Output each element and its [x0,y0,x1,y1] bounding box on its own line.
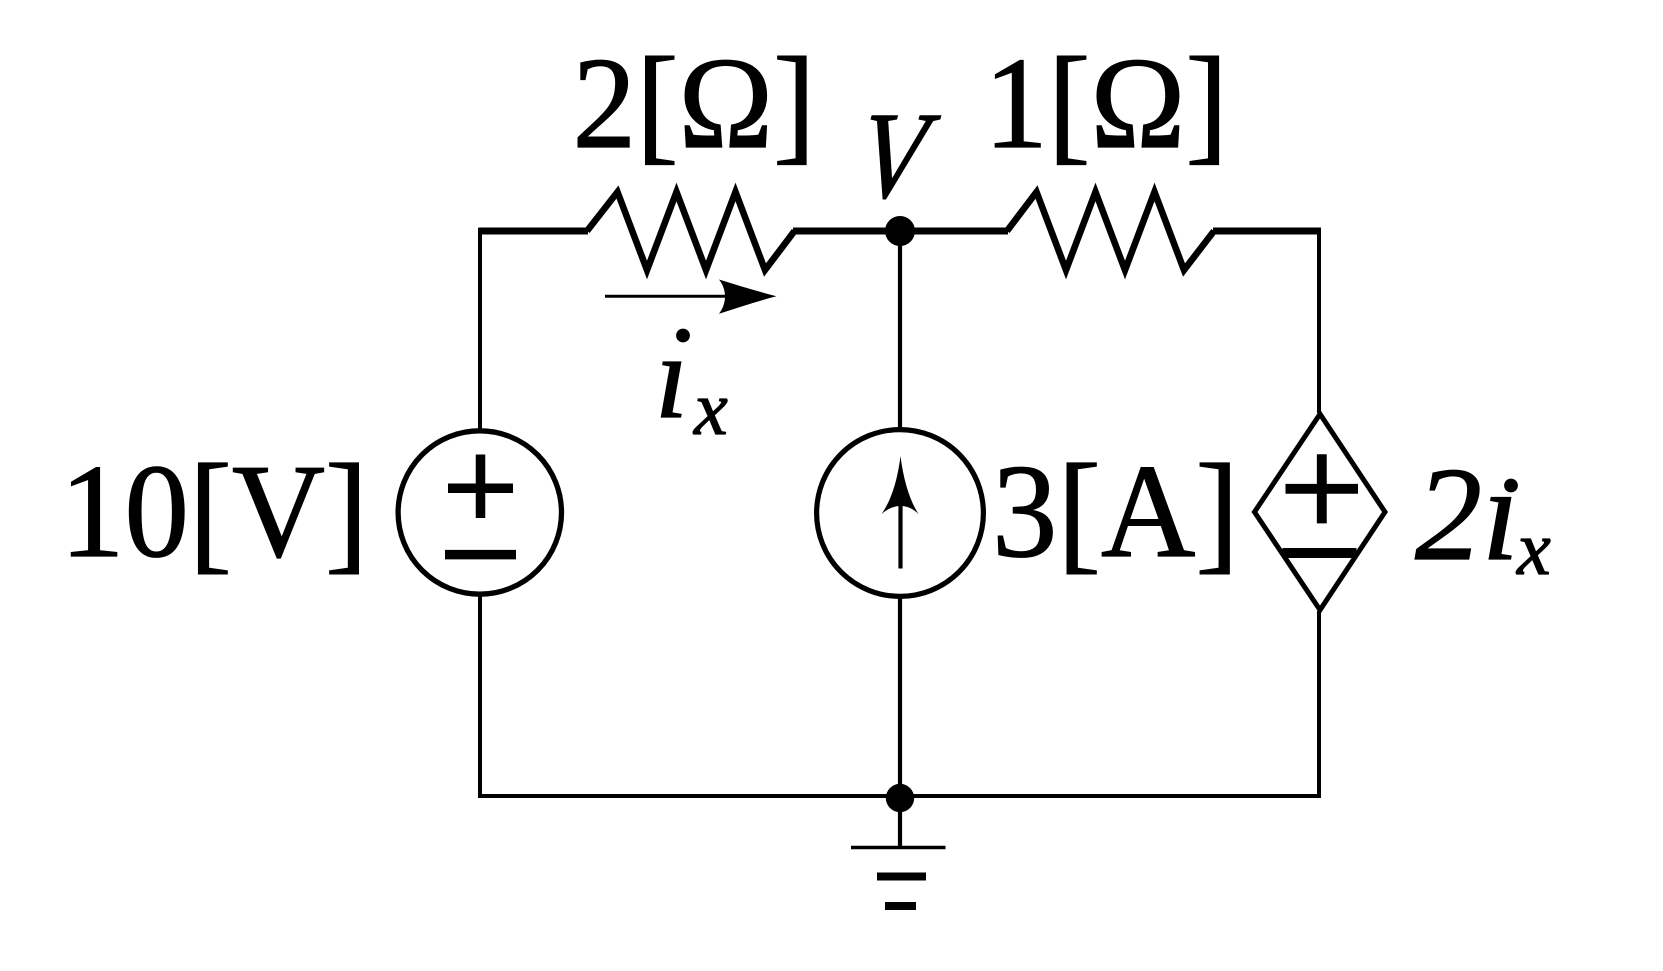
current source I1 arrowhead [882,456,919,514]
voltage source V1 plus sign [448,455,513,519]
svg-text:x: x [693,367,728,451]
ground stem [898,797,902,847]
bottom junction node dot [886,784,914,812]
svg-text:2ı: 2ı [1415,440,1519,588]
wire top-right horizontal segment [1213,228,1321,235]
ground bar 2 [877,873,926,881]
wire top-middle segment through node V [793,228,1008,235]
dependent source diamond 2ix [1255,414,1386,610]
wire left vertical lower [478,595,482,798]
dependent source plus sign [1286,454,1359,523]
resistor R2 1-ohm zigzag [1007,192,1214,270]
wire top-left horizontal segment [479,228,589,235]
wire right vertical upper [1317,228,1321,413]
wire right vertical lower [1317,611,1321,798]
svg-text:3[A]: 3[A] [992,437,1239,585]
wire middle vertical upper (node V to current source) [898,231,902,431]
dependent source minus sign [1283,548,1357,558]
wire middle vertical lower (current source to bottom node) [898,597,902,797]
ground bar 1 [851,846,946,849]
current source I1 circle [817,430,984,597]
svg-text:2[Ω]: 2[Ω] [573,31,816,176]
voltage source V1 minus sign [445,550,516,560]
wire left vertical upper [478,228,482,431]
node V junction dot [885,216,915,246]
resistor R1 2-ohm zigzag [587,192,795,270]
svg-text:x: x [1516,507,1551,591]
current arrow ix shaft [605,295,748,298]
svg-text:1[Ω]: 1[Ω] [984,31,1228,176]
voltage source V1 circle [398,431,561,594]
current source I1 arrow shaft [898,500,902,569]
svg-text:10[V]: 10[V] [60,437,368,585]
wire bottom horizontal [478,794,1321,798]
current arrow ix head [719,280,777,314]
ground bar 3 [885,902,916,910]
